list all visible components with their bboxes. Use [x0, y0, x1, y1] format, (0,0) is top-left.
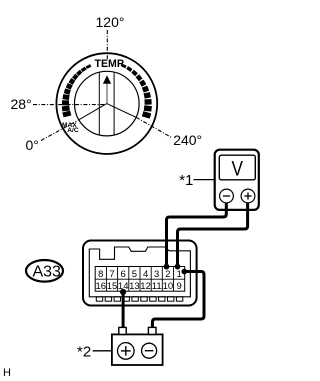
pointer arrow shaft — [106, 84, 108, 104]
svg-text:V: V — [232, 157, 244, 180]
svg-text:6: 6 — [121, 269, 126, 280]
voltmeter U box — [215, 150, 259, 210]
svg-text:8: 8 — [98, 269, 103, 280]
svg-text:H: H — [3, 367, 11, 379]
connector inner profile — [89, 247, 190, 297]
svg-text:13: 13 — [129, 281, 140, 292]
pointer arrow head — [103, 75, 111, 84]
battery plus terminal — [118, 343, 135, 360]
battery post plus — [119, 327, 126, 334]
dial inner circle — [75, 71, 140, 136]
voltmeter plus terminal — [241, 189, 255, 203]
wire V- to pin2 — [167, 203, 227, 267]
knob slot right line — [113, 72, 115, 135]
dial outer circle — [56, 53, 157, 154]
voltmeter display — [219, 155, 255, 180]
svg-text:120°: 120° — [96, 14, 125, 30]
pin numbers row2 — [96, 281, 182, 292]
knob spoke lower-right — [107, 104, 136, 118]
battery minus terminal — [142, 343, 157, 358]
connector label A33 ellipse — [26, 260, 63, 282]
dial tick band left — [62, 64, 92, 117]
leader 120deg — [106, 30, 108, 59]
svg-text:TEMP: TEMP — [94, 58, 123, 70]
wire V+ to pin1 — [178, 203, 248, 267]
knob slot left line — [98, 72, 100, 135]
svg-text:11: 11 — [152, 281, 162, 292]
knob spoke lower-left — [79, 104, 107, 120]
junction dot pin1 right — [181, 269, 187, 275]
svg-text:A/C: A/C — [67, 127, 79, 134]
leader *2 — [93, 350, 112, 352]
svg-text:12: 12 — [140, 281, 151, 292]
svg-text:3: 3 — [154, 269, 159, 280]
svg-text:240°: 240° — [173, 132, 202, 148]
svg-text:*2: *2 — [77, 343, 91, 360]
wire pin14 to battery plus — [122, 291, 125, 328]
svg-text:16: 16 — [96, 281, 107, 292]
wire pin1 to battery minus — [152, 272, 204, 329]
leader 28deg — [33, 104, 106, 106]
svg-text:5: 5 — [132, 269, 137, 280]
svg-text:A33: A33 — [32, 264, 61, 281]
battery post minus — [148, 327, 156, 334]
svg-text:15: 15 — [107, 281, 118, 292]
svg-text:1: 1 — [176, 269, 181, 280]
leader 240deg — [136, 117, 171, 137]
pin numbers row1 — [98, 269, 182, 280]
svg-text:0°: 0° — [26, 137, 39, 153]
svg-text:28°: 28° — [11, 96, 32, 112]
connector pin cavity boxes — [96, 297, 182, 301]
svg-text:10: 10 — [163, 281, 174, 292]
connector A33 outline — [83, 241, 197, 306]
junction dot pin1 — [175, 264, 181, 270]
svg-text:*1: *1 — [179, 172, 193, 189]
junction dot pin14 — [120, 289, 126, 295]
junction dot pin2 — [164, 264, 170, 270]
voltmeter minus terminal — [220, 189, 234, 203]
pin grid — [95, 267, 185, 292]
svg-text:9: 9 — [176, 281, 181, 292]
battery box — [112, 334, 163, 365]
svg-text:4: 4 — [143, 269, 148, 280]
leader *1 — [194, 179, 215, 181]
leader 0deg — [41, 120, 79, 141]
svg-text:2: 2 — [165, 269, 170, 280]
dial tick band right — [121, 64, 152, 119]
svg-text:7: 7 — [109, 269, 114, 280]
